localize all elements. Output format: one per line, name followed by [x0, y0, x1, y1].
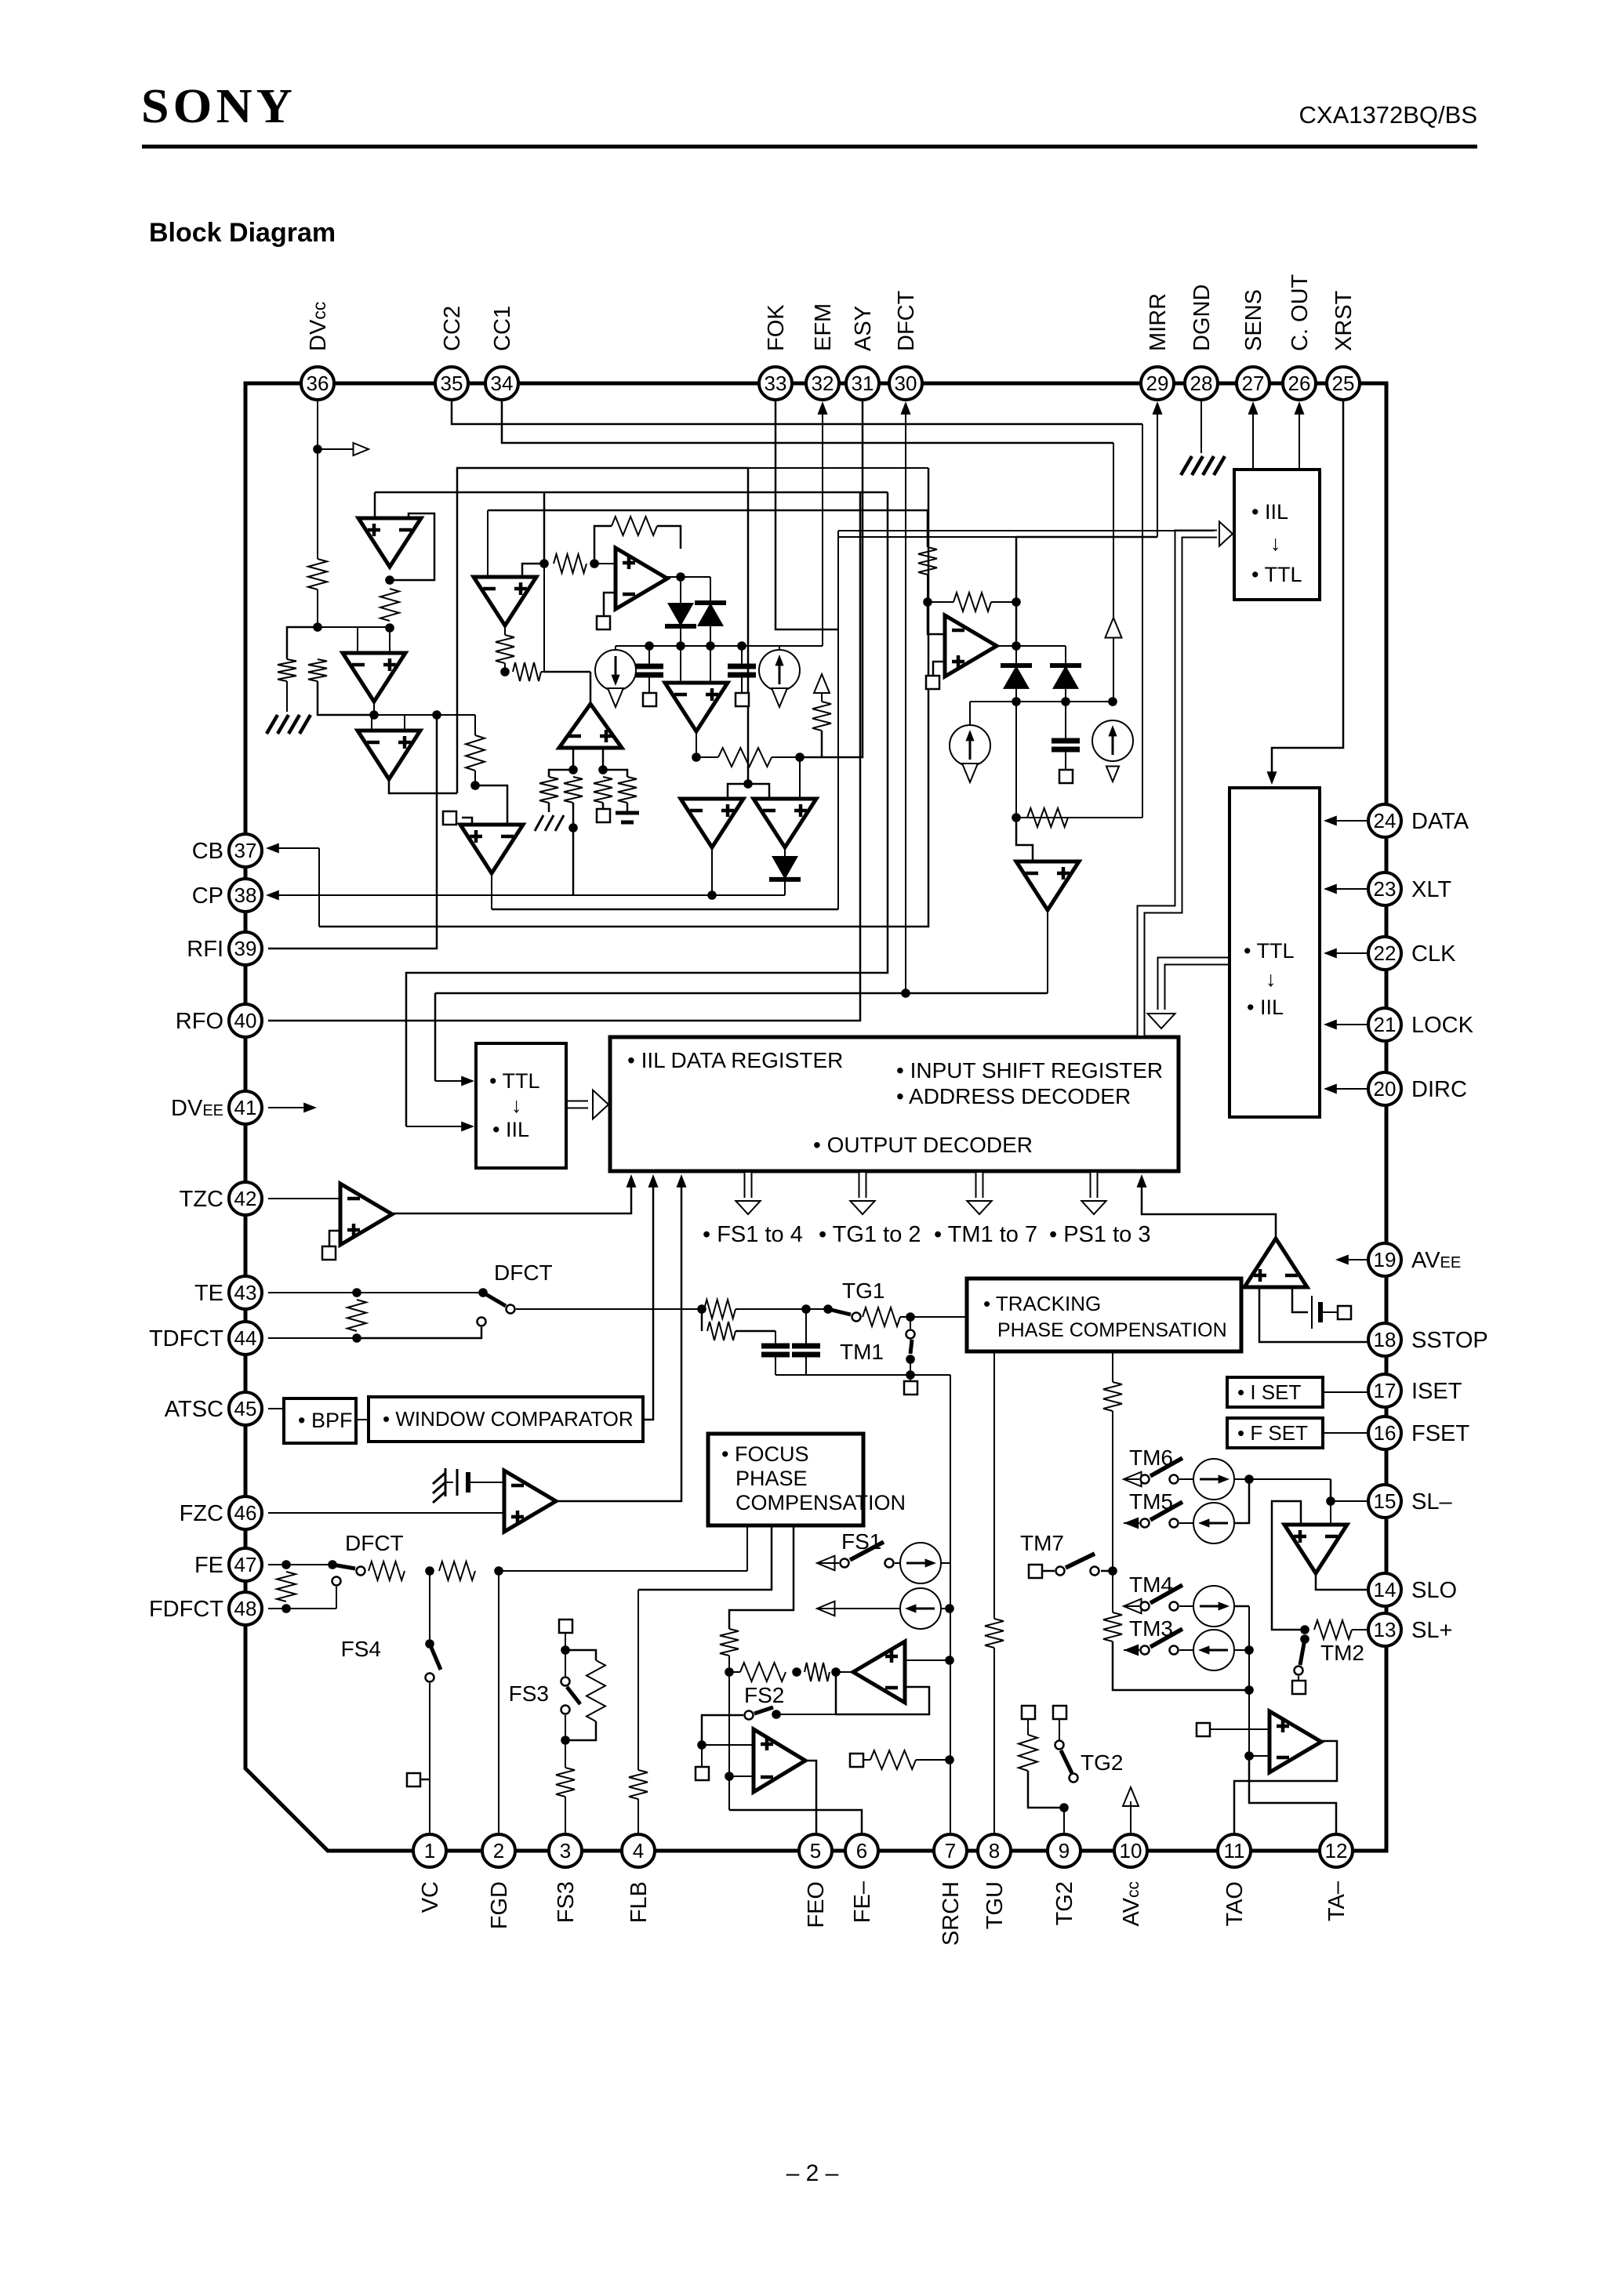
wire D3 to CP line: [784, 880, 786, 895]
pin 35 CC2: [435, 367, 468, 400]
wire R31 bottom: [1028, 1771, 1064, 1808]
wire pin 43 TE: [268, 1292, 483, 1293]
pin 36 DVcc: [301, 367, 334, 400]
svg-text:TAO: TAO: [1222, 1881, 1248, 1926]
resistor R31: [1019, 1735, 1037, 1771]
wire U3b minus down: [572, 748, 575, 770]
node U2 output: [369, 710, 379, 720]
wire R3 to op-amp row: [318, 681, 374, 715]
svg-text:TM5: TM5: [1129, 1489, 1173, 1514]
wire x930 column: [728, 1672, 730, 1810]
wire U10 output: [1047, 910, 1048, 993]
node SRCH r26: [945, 1755, 954, 1765]
svg-text:Block Diagram: Block Diagram: [149, 218, 336, 248]
wire ASY drop: [822, 400, 863, 757]
wire FE- route: [729, 1810, 862, 1834]
resistor R4: [380, 589, 399, 621]
pin 27 SENS: [1237, 367, 1269, 400]
wire to tracking box: [900, 1316, 967, 1318]
current source I1: [615, 646, 616, 650]
wire to U9 minus: [928, 602, 945, 634]
current source I10: [1179, 1649, 1193, 1651]
wire FLB to pin 4: [637, 1799, 639, 1834]
switch throw contact FE: [332, 1577, 341, 1586]
svg-text:20: 20: [1374, 1077, 1397, 1101]
switch DFCT (FE): [328, 1560, 337, 1569]
svg-text:• IIL: • IIL: [1247, 996, 1284, 1019]
pin 44: [229, 1322, 262, 1355]
resistor R29: [1103, 1612, 1122, 1641]
block I SET: [1227, 1377, 1323, 1407]
wire R42 square: [602, 803, 605, 809]
svg-text:CP: CP: [192, 883, 223, 909]
pin 19: [1368, 1243, 1401, 1276]
svg-text:27: 27: [1242, 372, 1265, 395]
svg-text:22: 22: [1374, 941, 1397, 965]
diode D2: [710, 577, 711, 603]
pin 33 FOK: [759, 367, 792, 400]
svg-text:45: 45: [234, 1397, 257, 1420]
svg-text:FS3: FS3: [509, 1681, 549, 1706]
wire TM to SL-: [1330, 1479, 1332, 1501]
ground at pin 28 DGND: [1200, 400, 1202, 453]
svg-text:25: 25: [1332, 372, 1355, 395]
svg-text:38: 38: [234, 883, 257, 907]
wire x1184 top: [457, 467, 928, 469]
terminal square U9: [926, 676, 939, 689]
wire pin 23 XLT into serial block: [1331, 888, 1368, 890]
svg-text:↓: ↓: [1266, 967, 1277, 991]
switch FS2: [745, 1711, 754, 1720]
wire to U8 plus: [799, 757, 801, 799]
wire to U10 minus: [1016, 818, 1033, 861]
pin 1: [413, 1834, 446, 1867]
op-amp U17: [1269, 1711, 1321, 1772]
diode D5: [1065, 646, 1066, 666]
terminal square TM1: [904, 1381, 917, 1395]
svg-text:• OUTPUT DECODER: • OUTPUT DECODER: [813, 1133, 1033, 1157]
node U14 plus: [697, 1740, 706, 1750]
wire ASY out line y1160: [492, 909, 838, 911]
node DFCT: [901, 988, 910, 998]
node TM6: [1244, 1474, 1254, 1484]
op-amp U12: [504, 1471, 556, 1532]
wire U15 output to decoder: [1142, 1178, 1276, 1239]
wire TA bus: [1248, 1606, 1250, 1756]
svg-text:ASY: ASY: [851, 306, 876, 351]
wire r24: [729, 1671, 740, 1673]
svg-text:FLB: FLB: [627, 1881, 652, 1923]
resistor R10: [918, 547, 937, 575]
wire R41 to CP net: [572, 828, 575, 895]
node cap rail: [906, 1370, 915, 1380]
wire R40 gnd: [548, 803, 550, 812]
block TTL-to-IIL converter: [476, 1043, 566, 1168]
pin 48: [229, 1592, 262, 1625]
svg-text:30: 30: [895, 372, 917, 395]
wire U3 output: [389, 779, 457, 793]
wire TE to TG1: [516, 1308, 702, 1310]
wire U6 output: [696, 731, 697, 757]
wire pin 42 TZC: [268, 1198, 340, 1199]
node U3b plus: [598, 765, 608, 774]
bus line y628: [375, 491, 888, 494]
node FGD: [494, 1566, 503, 1576]
svg-text:• F SET: • F SET: [1237, 1421, 1308, 1445]
node x1028: [801, 1304, 811, 1314]
svg-text:3: 3: [560, 1839, 571, 1863]
svg-text:TA–: TA–: [1324, 1881, 1349, 1921]
current source I4: [1092, 720, 1133, 761]
wire U1b minus: [487, 510, 489, 577]
svg-text:• BPF: • BPF: [298, 1409, 352, 1432]
wire ISET box to pin 17: [1323, 1391, 1368, 1393]
node TE: [352, 1288, 361, 1297]
pin 29 MIRR: [1141, 367, 1174, 400]
wire R4 to U2: [389, 628, 390, 653]
switch DFCT (TE): [478, 1288, 488, 1297]
wire DVcc node to CC chain: [318, 626, 388, 628]
capacitor C3: [1065, 702, 1066, 739]
wire U4 output to CP/ASY lines: [491, 873, 492, 909]
svg-text:CC1: CC1: [490, 306, 515, 351]
wire U1 feedback: [390, 513, 434, 580]
svg-text:6: 6: [856, 1839, 867, 1863]
op-amp U10: [1016, 861, 1079, 910]
switch TG2: [1055, 1741, 1064, 1750]
wire R6 to U5: [594, 563, 616, 564]
capacitor C1: [648, 646, 650, 665]
wire IIL block feed y677: [838, 530, 1214, 531]
wire TM1 to square: [910, 1359, 911, 1381]
wire row y857 to buffer: [544, 671, 590, 673]
wire pin 47 FE: [268, 1564, 332, 1565]
svg-text:DVcc: DVcc: [306, 302, 331, 351]
wire U1b out: [504, 626, 506, 635]
bus line y541 from pin 35: [452, 400, 1142, 424]
wire pin35 riser: [1142, 424, 1143, 818]
switch contact: [507, 1305, 515, 1314]
svg-text:XRST: XRST: [1331, 290, 1357, 351]
pin 41: [229, 1091, 262, 1124]
svg-text:• TRACKING: • TRACKING: [983, 1292, 1101, 1315]
svg-text:• I SET: • I SET: [1237, 1380, 1301, 1404]
svg-text:18: 18: [1374, 1328, 1397, 1351]
resistor R8: [718, 748, 772, 767]
svg-text:• IIL DATA REGISTER: • IIL DATA REGISTER: [627, 1048, 843, 1072]
svg-text:TM1: TM1: [840, 1340, 884, 1364]
wire U9 plus: [933, 662, 945, 676]
svg-text:SONY: SONY: [141, 80, 296, 133]
pin 17: [1368, 1374, 1401, 1407]
wire focus box leg3: [729, 1525, 794, 1629]
svg-text:FZC: FZC: [180, 1501, 223, 1526]
wire R3c: [541, 671, 544, 673]
wire to pin 13: [1352, 1629, 1368, 1630]
capacitor C2: [741, 646, 743, 665]
pin 45: [229, 1392, 262, 1425]
wire MIRR out to pin 29: [1016, 537, 1157, 602]
svg-text:29: 29: [1146, 372, 1169, 395]
wire cap rail: [775, 1374, 950, 1376]
wire tracking box to TGU: [993, 1351, 995, 1619]
wire gnd to cap: [445, 1482, 453, 1483]
node TG1 out: [906, 1312, 915, 1322]
wire output row y912: [318, 714, 475, 716]
node R6 right: [590, 559, 599, 568]
svg-text:– 2 –: – 2 –: [786, 2160, 839, 2186]
wire triangle to row: [1113, 638, 1114, 702]
switch TM2: [1300, 1634, 1309, 1644]
op-amp U3: [358, 731, 420, 779]
wire U14 plus: [702, 1744, 754, 1746]
svg-text:47: 47: [234, 1553, 257, 1576]
op-amp U14: [754, 1729, 805, 1792]
node fok pair: [743, 779, 753, 789]
resistor R14: [704, 1300, 736, 1318]
wire U17 minus: [1249, 1755, 1269, 1757]
wire R1 to node: [317, 589, 318, 627]
pin 31 ASY: [846, 367, 879, 400]
op-amp U1b: [474, 577, 536, 626]
svg-text:36: 36: [307, 372, 329, 395]
svg-text:48: 48: [234, 1597, 257, 1620]
resistor R9: [812, 702, 831, 731]
node U3b minus: [568, 765, 578, 774]
block BPF: [284, 1398, 356, 1443]
switch TG1: [823, 1304, 833, 1314]
pin 15: [1368, 1485, 1401, 1518]
pin 47: [229, 1548, 262, 1581]
wire pin 25 XRST to serial block: [1272, 400, 1343, 778]
wire pin 21 LOCK into serial block: [1331, 1024, 1368, 1025]
resistor R18: [369, 1561, 405, 1580]
svg-text:• TTL: • TTL: [489, 1069, 539, 1093]
switch TM5: [1141, 1519, 1150, 1528]
op-amp U15: [1244, 1239, 1307, 1287]
wire pin 34 column: [1113, 443, 1114, 605]
svg-text:C. OUT: C. OUT: [1288, 274, 1313, 351]
pin 6: [845, 1834, 878, 1867]
svg-text:2: 2: [493, 1839, 504, 1863]
node x895: [697, 1304, 706, 1314]
block IIL-to-TTL converter: [1234, 470, 1320, 600]
wire x1296 column: [1015, 702, 1017, 818]
terminal square TG2a: [1022, 1706, 1035, 1719]
svg-text:TG1: TG1: [842, 1279, 884, 1303]
svg-text:FSET: FSET: [1411, 1421, 1469, 1446]
resistor R20: [629, 1770, 648, 1799]
svg-text:FOK: FOK: [764, 304, 789, 351]
ground plate FZC: [445, 1468, 447, 1496]
pin 5: [799, 1834, 832, 1867]
pin 21: [1368, 1008, 1401, 1041]
svg-text:XLT: XLT: [1411, 877, 1451, 902]
wire CP line: [268, 894, 785, 896]
svg-text:↓: ↓: [1270, 531, 1281, 555]
pin 28 DGND: [1185, 367, 1218, 400]
wire x694: [543, 564, 545, 672]
op-amp U8: [754, 799, 816, 847]
wire pin 26 C.OUT from IIL block: [1299, 407, 1300, 470]
wire I8 join: [1234, 1479, 1249, 1523]
svg-text:FS4: FS4: [341, 1637, 381, 1661]
wire U4 minus: [475, 785, 507, 825]
vertical x1184 to CB: [319, 468, 928, 927]
op-amp U11: [340, 1184, 392, 1245]
node U1b out: [500, 667, 510, 676]
svg-text:42: 42: [234, 1187, 257, 1210]
wire y685 left stub: [838, 536, 1016, 538]
svg-text:DFCT: DFCT: [345, 1531, 404, 1555]
pin 40: [229, 1004, 262, 1037]
wire U1b plus: [522, 564, 544, 577]
wire R8: [696, 756, 718, 758]
svg-text:CXA1372BQ/BS: CXA1372BQ/BS: [1299, 101, 1477, 129]
wire feedback to output: [657, 526, 681, 549]
svg-text:• ADDRESS DECODER: • ADDRESS DECODER: [896, 1084, 1131, 1108]
wire SRCH column: [950, 1375, 951, 1834]
svg-text:DIRC: DIRC: [1411, 1077, 1467, 1102]
node FS2 mid: [792, 1667, 801, 1677]
node MIRR in: [923, 597, 932, 607]
wire FE row to focus: [499, 1570, 747, 1572]
wire focus box leg2: [638, 1525, 772, 1590]
terminal square U4: [462, 818, 472, 825]
svg-text:• TG1 to 2: • TG1 to 2: [819, 1222, 921, 1247]
svg-text:1: 1: [424, 1839, 435, 1863]
resistor R13: [347, 1300, 366, 1331]
svg-text:FS1: FS1: [841, 1529, 881, 1554]
svg-text:DFCT: DFCT: [494, 1260, 553, 1285]
hollow output arrow TG: [859, 1173, 867, 1198]
current source I8: [1179, 1522, 1193, 1524]
wire feedback to output node: [1015, 602, 1018, 646]
wire EFM drop join: [822, 404, 823, 646]
wire pin29 riser: [1157, 407, 1158, 537]
svg-text:5: 5: [810, 1839, 821, 1863]
resistor R28: [1103, 1382, 1122, 1411]
hollow arrow TM4: [1124, 1599, 1142, 1614]
svg-text:19: 19: [1374, 1248, 1397, 1271]
op-amp U16: [1284, 1525, 1347, 1573]
node y1043: [1012, 813, 1021, 822]
wire U3b apex: [590, 672, 592, 704]
solid arrow TM5: [1124, 1518, 1139, 1529]
svg-text:15: 15: [1374, 1489, 1397, 1513]
wire U3 out extension: [389, 793, 457, 794]
pin 10: [1114, 1834, 1147, 1867]
buffer triangle on x1420: [1105, 618, 1121, 638]
svg-text:FEO: FEO: [804, 1881, 829, 1928]
node SRCH top: [945, 1604, 954, 1613]
node U13 plus: [945, 1656, 954, 1665]
svg-text:• TM1 to 7: • TM1 to 7: [934, 1222, 1037, 1247]
wire focus box leg1: [746, 1525, 748, 1571]
pin 43: [229, 1276, 262, 1309]
svg-text:FE: FE: [194, 1553, 223, 1578]
node SL-: [1326, 1496, 1335, 1506]
pin 2: [482, 1834, 515, 1867]
node x1020: [795, 753, 805, 762]
node FS3 top: [561, 1645, 570, 1655]
svg-text:SENS: SENS: [1241, 289, 1266, 351]
resistor R43: [618, 777, 637, 803]
wire pin 44 TDFCT: [268, 1337, 357, 1339]
bus y1241: [406, 492, 888, 1126]
wire TG2a: [1027, 1719, 1029, 1735]
svg-text:4: 4: [633, 1839, 644, 1863]
svg-text:8: 8: [989, 1839, 1000, 1863]
wire U5 out row: [667, 576, 710, 578]
pin 26 C. OUT: [1283, 367, 1316, 400]
resistor R15: [701, 1309, 703, 1331]
node FS3 bottom: [561, 1736, 570, 1745]
switch throw contact: [478, 1318, 486, 1326]
resistor R40: [539, 777, 558, 803]
pin 32 EFM: [806, 367, 839, 400]
resistor R2 to ground: [278, 659, 296, 681]
arrow EFM to pin 32: [817, 401, 827, 415]
wire I7 out: [1234, 1478, 1331, 1480]
svg-text:• TTL: • TTL: [1244, 939, 1294, 963]
wire FSET box to pin 16: [1323, 1432, 1368, 1434]
wire R3b: [504, 663, 506, 672]
svg-text:TZC: TZC: [180, 1187, 223, 1212]
wire CB riser: [318, 848, 320, 927]
pin 37: [229, 834, 262, 867]
hollow arrow FS1: [817, 1556, 835, 1571]
resistor R12: [1027, 808, 1068, 827]
svg-text:PHASE COMPENSATION: PHASE COMPENSATION: [997, 1319, 1227, 1341]
AVcc supply triangle: [1123, 1787, 1139, 1806]
svg-text:SRCH: SRCH: [939, 1881, 964, 1946]
current source I5: [895, 1562, 900, 1564]
resistor R30: [1314, 1620, 1352, 1639]
wire RFI line: [268, 715, 437, 949]
op-amp U1: [358, 518, 421, 567]
svg-text:40: 40: [234, 1009, 257, 1032]
wire FS3 chain: [565, 1740, 566, 1768]
op-amp U5: [616, 548, 667, 609]
svg-text:16: 16: [1374, 1421, 1397, 1445]
wire node to left branch: [287, 627, 318, 659]
wire U7 output to CP line: [711, 847, 713, 895]
switch TM1: [910, 1317, 911, 1329]
wire FS4 to VC: [429, 1683, 430, 1834]
svg-text:CB: CB: [192, 839, 223, 864]
svg-text:TG2: TG2: [1081, 1750, 1123, 1775]
wire U13 minus loop: [836, 1672, 929, 1714]
wire pin 30 DFCT riser: [905, 407, 906, 993]
svg-text:• INPUT SHIFT REGISTER: • INPUT SHIFT REGISTER: [896, 1058, 1163, 1083]
wire U3 plus: [404, 715, 405, 731]
wire CB line: [268, 847, 319, 849]
wire cap to U12: [468, 1482, 504, 1483]
svg-text:FS3: FS3: [554, 1881, 579, 1923]
capacitor C5: [805, 1309, 807, 1344]
op-amp U2: [343, 653, 405, 702]
pin 18: [1368, 1323, 1401, 1356]
wire tracking box TM leg: [1112, 1351, 1113, 1382]
capacitor C7 to ground: [627, 803, 629, 812]
current source I2: [779, 646, 780, 650]
node TDFCT: [352, 1333, 361, 1343]
op-amp U7: [681, 799, 743, 847]
wire U3b plus down: [602, 748, 605, 770]
node U7 out: [707, 890, 717, 900]
svg-text:TM2: TM2: [1320, 1641, 1364, 1665]
